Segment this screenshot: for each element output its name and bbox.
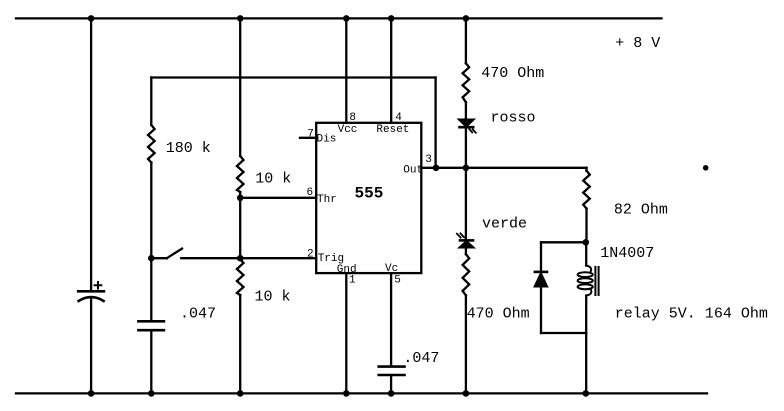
wire R1 to switch node bbox=[150, 163, 152, 259]
svg-text:.047: .047 bbox=[180, 305, 216, 322]
wire diode branch vertical upper bbox=[540, 242, 542, 272]
capacitor C1 electrolytic bbox=[78, 282, 104, 301]
wire switch to Trig pin2 bbox=[181, 257, 316, 259]
wire relay node to diode (top) bbox=[541, 241, 586, 243]
node ground / R5 bbox=[463, 390, 470, 397]
svg-text:7: 7 bbox=[307, 128, 314, 140]
diode D3 1N4007 bbox=[535, 272, 547, 286]
wire relay node to coil bbox=[585, 242, 587, 265]
svg-text:Vcc: Vcc bbox=[338, 124, 358, 136]
resistor R5 470 Ohm bbox=[463, 254, 470, 295]
svg-text:Gnd: Gnd bbox=[337, 264, 357, 276]
svg-text:Vc: Vc bbox=[385, 263, 398, 275]
node top rail / R4 bbox=[463, 15, 470, 22]
svg-text:+ 8 V: + 8 V bbox=[615, 35, 660, 52]
wire C2 to ground rail bbox=[150, 330, 152, 393]
wire pin3 Out to relay branch bbox=[421, 167, 586, 169]
wire switch node to C2 bbox=[150, 258, 152, 320]
svg-text:2: 2 bbox=[307, 249, 314, 261]
wire Out to R6 corner bbox=[585, 168, 587, 171]
wire pin5 Vc to C3 bbox=[390, 273, 392, 366]
svg-text:10 k: 10 k bbox=[255, 288, 291, 305]
LED D1 rosso bbox=[459, 120, 476, 133]
resistor R1 180 k bbox=[148, 125, 155, 163]
op-amp U1 555 box bbox=[316, 123, 421, 273]
node top rail / R2 chain bbox=[237, 15, 244, 22]
node Out / LED chain bbox=[463, 165, 470, 172]
node ground / relay bbox=[583, 390, 590, 397]
wire coil to ground rail bbox=[585, 296, 587, 394]
wire rail to R4 bbox=[465, 18, 467, 63]
node ground / pin1 bbox=[343, 390, 350, 397]
wire R3 to ground rail bbox=[239, 295, 241, 393]
node ground / C2 bbox=[148, 390, 155, 397]
svg-text:Reset: Reset bbox=[376, 124, 409, 136]
svg-text:4: 4 bbox=[395, 112, 402, 124]
svg-text:3: 3 bbox=[425, 154, 432, 166]
wire feedback from Out to switch (horizontal) bbox=[151, 76, 435, 78]
svg-text:relay 5V. 164 Ohm: relay 5V. 164 Ohm bbox=[615, 306, 768, 323]
svg-text:8: 8 bbox=[349, 112, 356, 124]
svg-text:Dis: Dis bbox=[317, 134, 337, 146]
resistor R4 470 Ohm bbox=[463, 63, 470, 102]
LED D2 verde bbox=[457, 233, 473, 247]
svg-text:6: 6 bbox=[307, 187, 314, 199]
svg-text:Thr: Thr bbox=[317, 194, 337, 206]
svg-text:.047: .047 bbox=[403, 350, 439, 367]
node ground / C3 bbox=[388, 390, 395, 397]
wire Thr to R2/R3 node bbox=[240, 197, 316, 199]
svg-text:10 k: 10 k bbox=[255, 171, 291, 188]
wire R6 to relay node bbox=[585, 209, 587, 243]
wire diode loop bottom bbox=[541, 332, 586, 334]
wire pin8 Vcc to rail bbox=[345, 18, 347, 122]
node ground / R3 bbox=[237, 390, 244, 397]
resistor R6 82 Ohm bbox=[583, 171, 590, 209]
capacitor C3 .047 bbox=[379, 367, 405, 375]
relay K1 coil bbox=[578, 266, 599, 296]
node ground / C1 bbox=[88, 390, 95, 397]
wire Out node to LED D2 bbox=[465, 168, 467, 254]
svg-text:180 k: 180 k bbox=[166, 140, 211, 157]
svg-text:555: 555 bbox=[355, 185, 384, 203]
wire down to R1 bbox=[150, 78, 152, 126]
wire R5 to ground rail bbox=[465, 295, 467, 393]
wire R4 to LED D1 bbox=[465, 102, 467, 168]
svg-text:verde: verde bbox=[482, 216, 527, 233]
wire feedback vertical to Out node bbox=[434, 78, 436, 168]
node top rail / pin4 bbox=[388, 15, 395, 22]
wire pin4 Reset to rail bbox=[390, 18, 392, 122]
wire left branch upper (to C1) bbox=[90, 18, 92, 290]
capacitor C2 .047 bbox=[138, 321, 164, 330]
wire top rail to R2 bbox=[239, 18, 241, 156]
node top rail / pin8 bbox=[343, 15, 350, 22]
wire bottom ground rail bbox=[16, 392, 707, 394]
node top rail / C1 bbox=[88, 15, 95, 22]
wire R2 to R3 bbox=[239, 192, 241, 259]
svg-text:470 Ohm: 470 Ohm bbox=[481, 65, 544, 82]
node switch junction bbox=[148, 255, 155, 262]
svg-text:Out: Out bbox=[403, 164, 423, 176]
svg-text:1N4007: 1N4007 bbox=[600, 245, 654, 262]
wire left branch lower (C1 to ground) bbox=[90, 298, 92, 394]
node relay / diode bbox=[583, 239, 590, 246]
wire top +8V rail bbox=[16, 17, 662, 19]
node Out / feedback bbox=[433, 165, 440, 172]
wire pin1 Gnd to ground rail bbox=[345, 273, 347, 393]
wire pin7 Dis stub bbox=[300, 137, 316, 139]
svg-text:rosso: rosso bbox=[491, 110, 536, 127]
wire C3 to ground rail bbox=[390, 375, 392, 393]
switch S1 bbox=[151, 249, 182, 259]
svg-text:470 Ohm: 470 Ohm bbox=[467, 305, 530, 322]
node Thr junction bbox=[237, 195, 244, 202]
node Trig junction bbox=[237, 255, 244, 262]
resistor R3 10 k bbox=[237, 259, 244, 295]
svg-text:1: 1 bbox=[349, 275, 356, 287]
svg-text:82 Ohm: 82 Ohm bbox=[614, 201, 668, 218]
resistor R2 10 k bbox=[237, 156, 244, 192]
node isolated dot right bbox=[703, 165, 709, 171]
svg-text:5: 5 bbox=[394, 275, 401, 287]
wire diode branch vertical lower bbox=[540, 286, 542, 333]
